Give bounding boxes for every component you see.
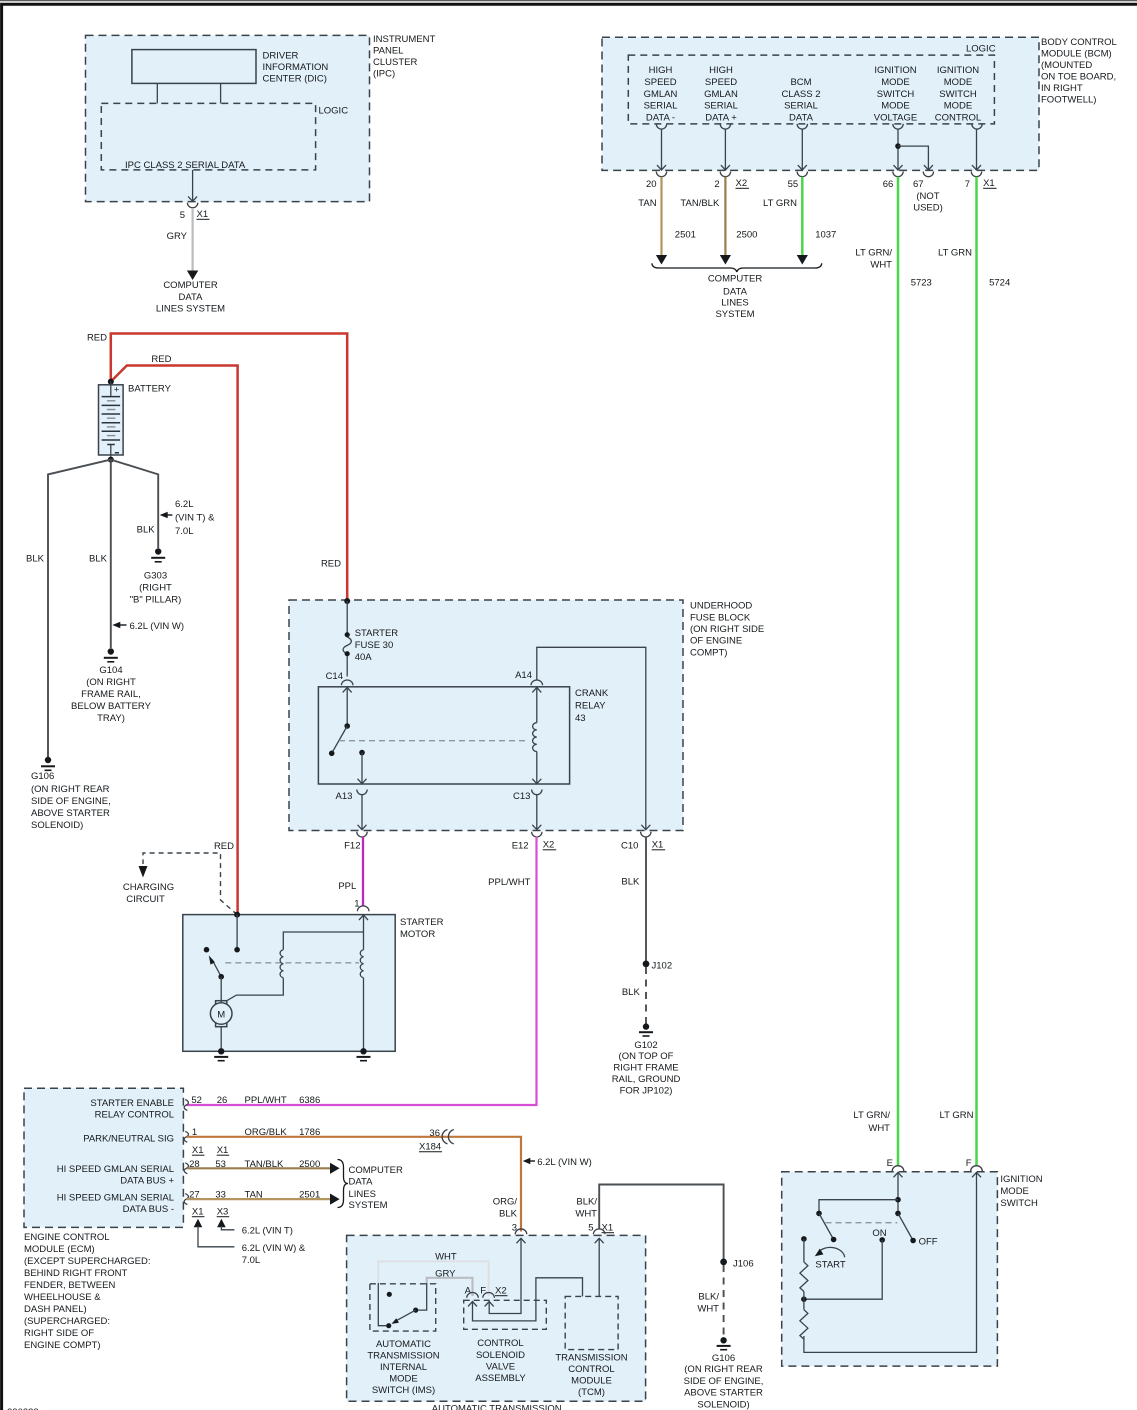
- wire logic to pin 20: [661, 129, 663, 170]
- svg-text:7.0L: 7.0L: [175, 526, 194, 537]
- svg-text:SWITCH (IMS): SWITCH (IMS): [372, 1385, 435, 1396]
- pin squiggles: [184, 1100, 188, 1111]
- svg-text:TRAY): TRAY): [97, 713, 125, 724]
- svg-text:SOLENOID): SOLENOID): [31, 820, 83, 831]
- wire PPL/WHT E12 to ECM pin 52: [187, 837, 537, 1106]
- crank relay 43 box: [318, 687, 569, 784]
- svg-text:E: E: [887, 1158, 893, 1169]
- svg-text:INSTRUMENT: INSTRUMENT: [373, 34, 435, 45]
- svg-text:RED: RED: [87, 333, 107, 344]
- wire BLK/WHT TCM ground: [599, 1185, 723, 1262]
- svg-text:ON TOE BOARD,: ON TOE BOARD,: [1041, 72, 1116, 83]
- ground G106: [45, 757, 51, 763]
- svg-text:TRANSMISSION: TRANSMISSION: [367, 1351, 439, 1362]
- svg-text:TRANSMISSION: TRANSMISSION: [555, 1352, 627, 1363]
- wire TAN 2501 to computer data lines: [187, 1198, 331, 1200]
- svg-text:RED: RED: [321, 559, 341, 570]
- wire DIC to logic right: [220, 83, 222, 103]
- svg-text:DATA: DATA: [789, 112, 814, 123]
- node battery negative: [108, 457, 114, 463]
- svg-text:RED: RED: [214, 841, 234, 852]
- option arrow X3 6.2L (VIN T): [217, 1219, 226, 1228]
- fuse STARTER FUSE 30 40A: [345, 632, 350, 637]
- svg-text:COMPUTER: COMPUTER: [163, 280, 218, 291]
- wire PPL F12 to starter pin 1: [362, 837, 364, 906]
- svg-text:X2: X2: [495, 1286, 507, 1297]
- wire LT GRN 1037: [801, 177, 804, 256]
- svg-text:RELAY: RELAY: [575, 701, 606, 712]
- svg-text:(ON TOP OF: (ON TOP OF: [619, 1051, 674, 1062]
- svg-text:MODE: MODE: [881, 77, 910, 88]
- mechanical link dashes: [225, 962, 359, 964]
- svg-text:ASSEMBLY: ASSEMBLY: [475, 1373, 526, 1384]
- svg-text:RIGHT FRAME: RIGHT FRAME: [613, 1063, 678, 1074]
- svg-text:OFF: OFF: [919, 1237, 938, 1248]
- underhood fuse block box: [289, 600, 683, 831]
- svg-text:ABOVE STARTER: ABOVE STARTER: [31, 808, 110, 819]
- svg-text:WHT: WHT: [575, 1209, 597, 1220]
- svg-text:ABOVE STARTER: ABOVE STARTER: [684, 1388, 763, 1399]
- option arrow 6.2L (VIN W): [112, 622, 120, 628]
- svg-text:FOOTWELL): FOOTWELL): [1041, 95, 1096, 106]
- svg-text:STARTER: STARTER: [400, 917, 444, 928]
- engine control module ECM box: [24, 1088, 183, 1227]
- svg-text:+: +: [114, 384, 120, 395]
- svg-text:X1: X1: [192, 1207, 204, 1218]
- svg-text:DATA BUS +: DATA BUS +: [120, 1176, 174, 1187]
- wire E to switch: [897, 1172, 899, 1213]
- wire resistor to pin F: [804, 1172, 977, 1352]
- svg-text:MODE: MODE: [389, 1374, 418, 1385]
- start blade: [819, 1213, 834, 1239]
- wire C14 into relay: [343, 688, 352, 693]
- svg-text:M: M: [217, 1010, 225, 1021]
- svg-text:(MOUNTED: (MOUNTED: [1041, 60, 1092, 71]
- svg-text:(IPC): (IPC): [373, 69, 395, 80]
- wire BLK to G104: [110, 460, 112, 648]
- svg-text:C10: C10: [621, 841, 638, 852]
- svg-text:MODE: MODE: [944, 101, 973, 112]
- svg-text:X1: X1: [983, 178, 995, 189]
- svg-text:IN RIGHT: IN RIGHT: [1041, 83, 1083, 94]
- svg-text:X2: X2: [543, 840, 555, 851]
- body control module BCM box: [602, 37, 1039, 170]
- svg-text:PPL: PPL: [338, 881, 356, 892]
- ignition mode switch box: [782, 1172, 998, 1366]
- svg-text:X1: X1: [192, 1145, 204, 1156]
- svg-text:SERIAL: SERIAL: [644, 101, 678, 112]
- wire BLK/WHT dashed to G106: [723, 1265, 725, 1337]
- svg-text:"B" PILLAR): "B" PILLAR): [130, 595, 182, 606]
- svg-text:BCM: BCM: [790, 77, 811, 88]
- svg-text:WHT: WHT: [870, 260, 892, 271]
- automatic transmission box: [347, 1235, 646, 1401]
- svg-text:CHARGING: CHARGING: [123, 882, 174, 893]
- svg-text:CONTROL: CONTROL: [935, 112, 981, 123]
- wire BLK dashed to G102: [645, 967, 647, 1024]
- mechanical link dashes: [826, 1222, 898, 1224]
- svg-text:SYSTEM: SYSTEM: [349, 1200, 388, 1211]
- svg-text:5: 5: [588, 1223, 593, 1234]
- svg-text:RED: RED: [151, 354, 171, 365]
- svg-text:IGNITION: IGNITION: [1000, 1174, 1042, 1185]
- svg-text:BLK/: BLK/: [576, 1197, 597, 1208]
- wire branch to pin 67: [898, 146, 928, 170]
- connector X1 pin 5: [187, 203, 197, 208]
- svg-text:STARTER: STARTER: [355, 628, 399, 639]
- svg-text:X1: X1: [217, 1145, 229, 1156]
- svg-text:DRIVER: DRIVER: [263, 51, 299, 62]
- svg-text:CIRCUIT: CIRCUIT: [126, 894, 165, 905]
- motor M: [216, 1001, 227, 1027]
- option arrow 6.2L (VIN T) & 7.0L: [160, 512, 168, 518]
- driver information center DIC: [132, 50, 256, 84]
- WHT wire IMS to pin F: [378, 1261, 488, 1296]
- svg-text:CENTER (DIC): CENTER (DIC): [263, 74, 327, 85]
- svg-text:COMPT): COMPT): [690, 647, 727, 658]
- node red entry: [234, 912, 240, 918]
- BCM logic box: [628, 55, 994, 124]
- svg-text:LINES: LINES: [349, 1189, 376, 1200]
- svg-text:UNDERHOOD: UNDERHOOD: [690, 601, 752, 612]
- wire red entry to contact: [236, 915, 238, 950]
- svg-text:SERIAL: SERIAL: [704, 101, 738, 112]
- svg-text:VOLTAGE: VOLTAGE: [874, 112, 917, 123]
- wire logic to pin 5: [192, 170, 194, 201]
- svg-text:(NOT: (NOT: [916, 191, 939, 202]
- svg-text:LINES: LINES: [721, 298, 748, 309]
- wire LT GRN/WHT 5723: [897, 177, 900, 1167]
- battery: [99, 385, 124, 455]
- svg-text:G104: G104: [99, 665, 122, 676]
- svg-text:SOLENOID): SOLENOID): [697, 1400, 749, 1410]
- wire A14 into relay coil: [532, 688, 541, 693]
- option arrow X1 6.2L (VIN W) & 7.0L: [194, 1219, 203, 1228]
- junction on voltage line: [895, 143, 901, 149]
- svg-text:G102: G102: [634, 1040, 657, 1051]
- wire to fuse: [346, 601, 348, 635]
- svg-text:(ON RIGHT REAR: (ON RIGHT REAR: [31, 784, 110, 795]
- svg-text:LT GRN: LT GRN: [940, 1110, 974, 1121]
- wire ORG/BLK 1786 to trans pin 3: [187, 1137, 522, 1232]
- IMS internal wires: [378, 1283, 386, 1326]
- wire LT GRN 5724: [975, 177, 978, 1167]
- svg-text:SWITCH: SWITCH: [939, 89, 977, 100]
- svg-text:1037: 1037: [815, 230, 836, 241]
- svg-text:GMLAN: GMLAN: [704, 89, 738, 100]
- svg-text:COMPUTER: COMPUTER: [708, 274, 763, 285]
- svg-text:2500: 2500: [736, 230, 757, 241]
- svg-text:GMLAN: GMLAN: [644, 89, 678, 100]
- svg-text:2: 2: [714, 179, 719, 190]
- brace computer data lines: [652, 263, 822, 272]
- svg-text:F: F: [966, 1158, 972, 1169]
- svg-text:PPL/WHT: PPL/WHT: [488, 877, 530, 888]
- svg-text:J106: J106: [733, 1259, 754, 1270]
- svg-text:MODULE (BCM): MODULE (BCM): [1041, 49, 1112, 60]
- svg-text:7: 7: [965, 179, 970, 190]
- svg-text:BEHIND RIGHT FRONT: BEHIND RIGHT FRONT: [24, 1268, 127, 1279]
- svg-text:SWITCH: SWITCH: [877, 89, 915, 100]
- svg-text:5724: 5724: [989, 278, 1010, 289]
- svg-text:6.2L (VIN W): 6.2L (VIN W): [130, 621, 185, 632]
- svg-text:F12: F12: [344, 841, 360, 852]
- control solenoid valve assembly box: [464, 1300, 547, 1329]
- svg-text:(RIGHT: (RIGHT: [139, 583, 172, 594]
- connector arcs below BCM edge: [656, 172, 981, 177]
- svg-text:LINES SYSTEM: LINES SYSTEM: [156, 304, 225, 315]
- svg-text:INFORMATION: INFORMATION: [263, 62, 329, 73]
- svg-text:RIGHT SIDE OF: RIGHT SIDE OF: [24, 1328, 94, 1339]
- transmission control module TCM box: [565, 1296, 618, 1349]
- svg-text:E12: E12: [512, 841, 529, 852]
- svg-text:IPC CLASS 2 SERIAL DATA: IPC CLASS 2 SERIAL DATA: [125, 160, 246, 171]
- svg-text:BLK: BLK: [499, 1209, 518, 1220]
- svg-text:LOGIC: LOGIC: [966, 44, 996, 55]
- svg-text:(TCM): (TCM): [578, 1387, 605, 1398]
- svg-text:SWITCH: SWITCH: [1000, 1198, 1038, 1209]
- svg-text:BATTERY: BATTERY: [128, 384, 172, 395]
- brace computer data lines: [338, 1160, 349, 1208]
- svg-text:SPEED: SPEED: [705, 77, 737, 88]
- svg-text:TAN: TAN: [638, 198, 656, 209]
- wire BLK C10 to J102: [645, 837, 647, 964]
- svg-text:X1: X1: [197, 209, 209, 220]
- svg-text:START: START: [815, 1260, 845, 1271]
- svg-text:ON: ON: [872, 1228, 886, 1239]
- svg-text:PANEL: PANEL: [373, 46, 403, 57]
- svg-text:DATA: DATA: [179, 292, 204, 303]
- arrow to computer data lines system: [187, 271, 198, 281]
- svg-text:55: 55: [788, 179, 799, 190]
- wire TAN/BLK 2500: [724, 177, 726, 256]
- wire motor to ground: [220, 1027, 222, 1052]
- ground G303: [155, 548, 161, 554]
- svg-text:C14: C14: [326, 671, 343, 682]
- svg-text:43: 43: [575, 713, 586, 724]
- solenoid switch: [204, 947, 210, 953]
- svg-text:(ON RIGHT REAR: (ON RIGHT REAR: [684, 1364, 763, 1375]
- svg-text:2501: 2501: [675, 230, 696, 241]
- hold-in coil on pin1 line: [363, 915, 365, 1051]
- wire GRY: [192, 208, 194, 271]
- svg-text:USED): USED): [913, 203, 943, 214]
- wire BLK to G303: [111, 460, 158, 548]
- svg-text:MODULE: MODULE: [571, 1376, 612, 1387]
- splice J102: [643, 961, 650, 968]
- svg-text:(ON RIGHT SIDE: (ON RIGHT SIDE: [690, 624, 764, 635]
- svg-text:DATA: DATA: [349, 1177, 374, 1188]
- wire to start blade: [819, 1200, 898, 1214]
- automatic transmission internal mode switch IMS box: [370, 1284, 436, 1331]
- svg-text:COMPUTER: COMPUTER: [349, 1165, 404, 1176]
- svg-text:26: 26: [217, 1095, 228, 1106]
- connector arcs at logic box bottom: [656, 124, 982, 129]
- svg-text:VALVE: VALVE: [486, 1362, 515, 1373]
- wire logic to pin 2: [724, 129, 726, 170]
- svg-text:BLK: BLK: [89, 554, 108, 565]
- svg-text:(VIN T) &: (VIN T) &: [175, 513, 215, 524]
- charging circuit dashed tap: [143, 853, 237, 915]
- svg-text:BELOW BATTERY: BELOW BATTERY: [71, 701, 152, 712]
- svg-text:PPL/WHT: PPL/WHT: [245, 1095, 287, 1106]
- svg-text:66: 66: [883, 179, 894, 190]
- mechanical link dashes: [339, 740, 528, 742]
- svg-text:HIGH: HIGH: [709, 65, 733, 76]
- svg-text:BODY CONTROL: BODY CONTROL: [1041, 37, 1117, 48]
- wire TAN 2501: [660, 177, 662, 256]
- svg-text:ORG/: ORG/: [493, 1197, 518, 1208]
- wire logic to pin 55: [801, 129, 803, 170]
- svg-text:5723: 5723: [911, 278, 932, 289]
- svg-text:RELAY CONTROL: RELAY CONTROL: [95, 1110, 174, 1121]
- wire DIC to logic left: [156, 83, 158, 103]
- svg-text:OF ENGINE: OF ENGINE: [690, 636, 742, 647]
- svg-text:AUTOMATIC: AUTOMATIC: [376, 1339, 431, 1350]
- svg-text:RAIL, GROUND: RAIL, GROUND: [612, 1074, 681, 1085]
- svg-text:X1: X1: [602, 1223, 614, 1234]
- wire to motor: [220, 977, 222, 1002]
- svg-text:SERIAL: SERIAL: [784, 101, 818, 112]
- svg-text:(EXCEPT SUPERCHARGED:: (EXCEPT SUPERCHARGED:: [24, 1256, 151, 1267]
- svg-text:6.2L: 6.2L: [175, 499, 194, 510]
- svg-text:MODE: MODE: [1000, 1186, 1029, 1197]
- svg-text:G106: G106: [712, 1353, 735, 1364]
- svg-text:7.0L: 7.0L: [242, 1255, 261, 1266]
- wire RED battery to fuse block: [111, 334, 347, 602]
- svg-text:SIDE OF ENGINE,: SIDE OF ENGINE,: [684, 1376, 764, 1387]
- starter motor box: [183, 915, 395, 1052]
- svg-text:HI SPEED GMLAN SERIAL: HI SPEED GMLAN SERIAL: [57, 1193, 174, 1204]
- svg-text:G303: G303: [144, 571, 167, 582]
- svg-text:X3: X3: [217, 1207, 229, 1218]
- node red feed: [344, 598, 350, 604]
- junction node: [801, 1296, 807, 1302]
- svg-text:CLUSTER: CLUSTER: [373, 57, 417, 68]
- svg-text:CONTROL: CONTROL: [568, 1364, 614, 1375]
- wire A14 to C10 via top: [537, 647, 646, 829]
- svg-text:X184: X184: [419, 1142, 441, 1153]
- relay switch: [344, 723, 350, 729]
- svg-text:20: 20: [646, 179, 657, 190]
- resistor R1: [803, 1239, 805, 1262]
- svg-text:AUTOMATIC TRANSMISSION: AUTOMATIC TRANSMISSION: [432, 1404, 562, 1410]
- svg-text:LOGIC: LOGIC: [319, 106, 349, 117]
- svg-text:A14: A14: [515, 670, 532, 681]
- svg-text:5: 5: [180, 210, 185, 221]
- svg-text:GRY: GRY: [167, 231, 188, 242]
- svg-text:WHT: WHT: [868, 1123, 890, 1134]
- ground G102: [643, 1023, 649, 1029]
- svg-text:LT GRN: LT GRN: [938, 248, 972, 259]
- svg-text:X1: X1: [652, 840, 664, 851]
- svg-text:IGNITION: IGNITION: [874, 65, 916, 76]
- svg-text:LT GRN/: LT GRN/: [855, 248, 892, 259]
- svg-text:(SUPERCHARGED:: (SUPERCHARGED:: [24, 1316, 110, 1327]
- svg-text:SPEED: SPEED: [644, 77, 676, 88]
- svg-text:HIGH: HIGH: [649, 65, 673, 76]
- svg-text:BLK: BLK: [621, 877, 640, 888]
- svg-text:BLK/: BLK/: [698, 1292, 719, 1303]
- svg-text:(ON RIGHT: (ON RIGHT: [86, 677, 136, 688]
- svg-text:FRAME RAIL,: FRAME RAIL,: [81, 689, 141, 700]
- contact START: [801, 1236, 807, 1242]
- svg-text:X2: X2: [736, 178, 748, 189]
- GRY wire IMS to pin A: [427, 1278, 473, 1296]
- pull-in coil: [280, 950, 283, 978]
- svg-text:DATA: DATA: [723, 287, 748, 298]
- svg-text:WHT: WHT: [697, 1304, 719, 1315]
- svg-text:WHT: WHT: [435, 1252, 457, 1263]
- wire ON to resistor junction: [804, 1240, 882, 1299]
- svg-text:DATA -: DATA -: [646, 112, 675, 123]
- svg-text:MOTOR: MOTOR: [400, 929, 435, 940]
- wire BLK to G106: [48, 460, 111, 757]
- svg-text:BLK: BLK: [622, 987, 641, 998]
- svg-text:GRY: GRY: [435, 1269, 456, 1280]
- svg-text:FENDER, BETWEEN: FENDER, BETWEEN: [24, 1280, 115, 1291]
- ground G104: [108, 648, 114, 654]
- svg-text:LT GRN/: LT GRN/: [853, 1110, 890, 1121]
- wire TAN/BLK 2500 to computer data lines: [187, 1167, 331, 1169]
- svg-text:SOLENOID: SOLENOID: [476, 1350, 525, 1361]
- wire pin 3 to solenoid pin F: [489, 1238, 521, 1313]
- svg-text:SIDE OF ENGINE,: SIDE OF ENGINE,: [31, 796, 111, 807]
- svg-text:MODULE (ECM): MODULE (ECM): [24, 1244, 95, 1255]
- svg-text:C13: C13: [513, 791, 530, 802]
- node battery positive: [108, 379, 114, 385]
- svg-text:TAN/BLK: TAN/BLK: [680, 198, 720, 209]
- svg-text:DATA +: DATA +: [705, 112, 737, 123]
- svg-text:IGNITION: IGNITION: [937, 65, 979, 76]
- svg-text:6386: 6386: [299, 1095, 320, 1106]
- svg-text:ENGINE CONTROL: ENGINE CONTROL: [24, 1232, 110, 1243]
- svg-text:BLK: BLK: [26, 554, 45, 565]
- svg-text:WHEELHOUSE &: WHEELHOUSE &: [24, 1292, 101, 1303]
- svg-text:STARTER ENABLE: STARTER ENABLE: [90, 1098, 174, 1109]
- svg-text:36: 36: [429, 1128, 440, 1139]
- IPC logic box: [101, 103, 315, 169]
- start arrow: [818, 1247, 845, 1257]
- wire pin A to TCM: [473, 1278, 583, 1321]
- svg-text:DASH PANEL): DASH PANEL): [24, 1304, 87, 1315]
- option arrow 6.2L (VIN W) on ORG/BLK: [523, 1158, 531, 1164]
- svg-text:52: 52: [191, 1095, 202, 1106]
- ground starter motor left: [218, 1048, 224, 1054]
- relay coil: [533, 723, 537, 752]
- svg-text:FOR JP102): FOR JP102): [620, 1086, 673, 1097]
- svg-text:J102: J102: [652, 961, 673, 972]
- off blade: [895, 1211, 901, 1217]
- svg-text:FUSE BLOCK: FUSE BLOCK: [690, 612, 751, 623]
- svg-text:INTERNAL: INTERNAL: [380, 1362, 427, 1373]
- instrument panel cluster IPC box: [86, 35, 370, 201]
- ground G106 right: [720, 1337, 726, 1343]
- svg-text:BLK: BLK: [137, 525, 156, 536]
- svg-text:SYSTEM: SYSTEM: [715, 309, 754, 320]
- svg-text:A13: A13: [335, 791, 352, 802]
- svg-text:CONTROL: CONTROL: [477, 1338, 523, 1349]
- svg-text:PARK/NEUTRAL SIG: PARK/NEUTRAL SIG: [83, 1134, 174, 1145]
- wire RED battery to starter motor: [111, 366, 238, 914]
- svg-text:MODE: MODE: [881, 101, 910, 112]
- svg-text:MODE: MODE: [944, 77, 973, 88]
- svg-text:HI SPEED GMLAN SERIAL: HI SPEED GMLAN SERIAL: [57, 1164, 174, 1175]
- resistor R2: [800, 1310, 808, 1340]
- svg-text:LT GRN: LT GRN: [763, 198, 797, 209]
- svg-text:CRANK: CRANK: [575, 688, 609, 699]
- svg-text:CLASS 2: CLASS 2: [781, 89, 820, 100]
